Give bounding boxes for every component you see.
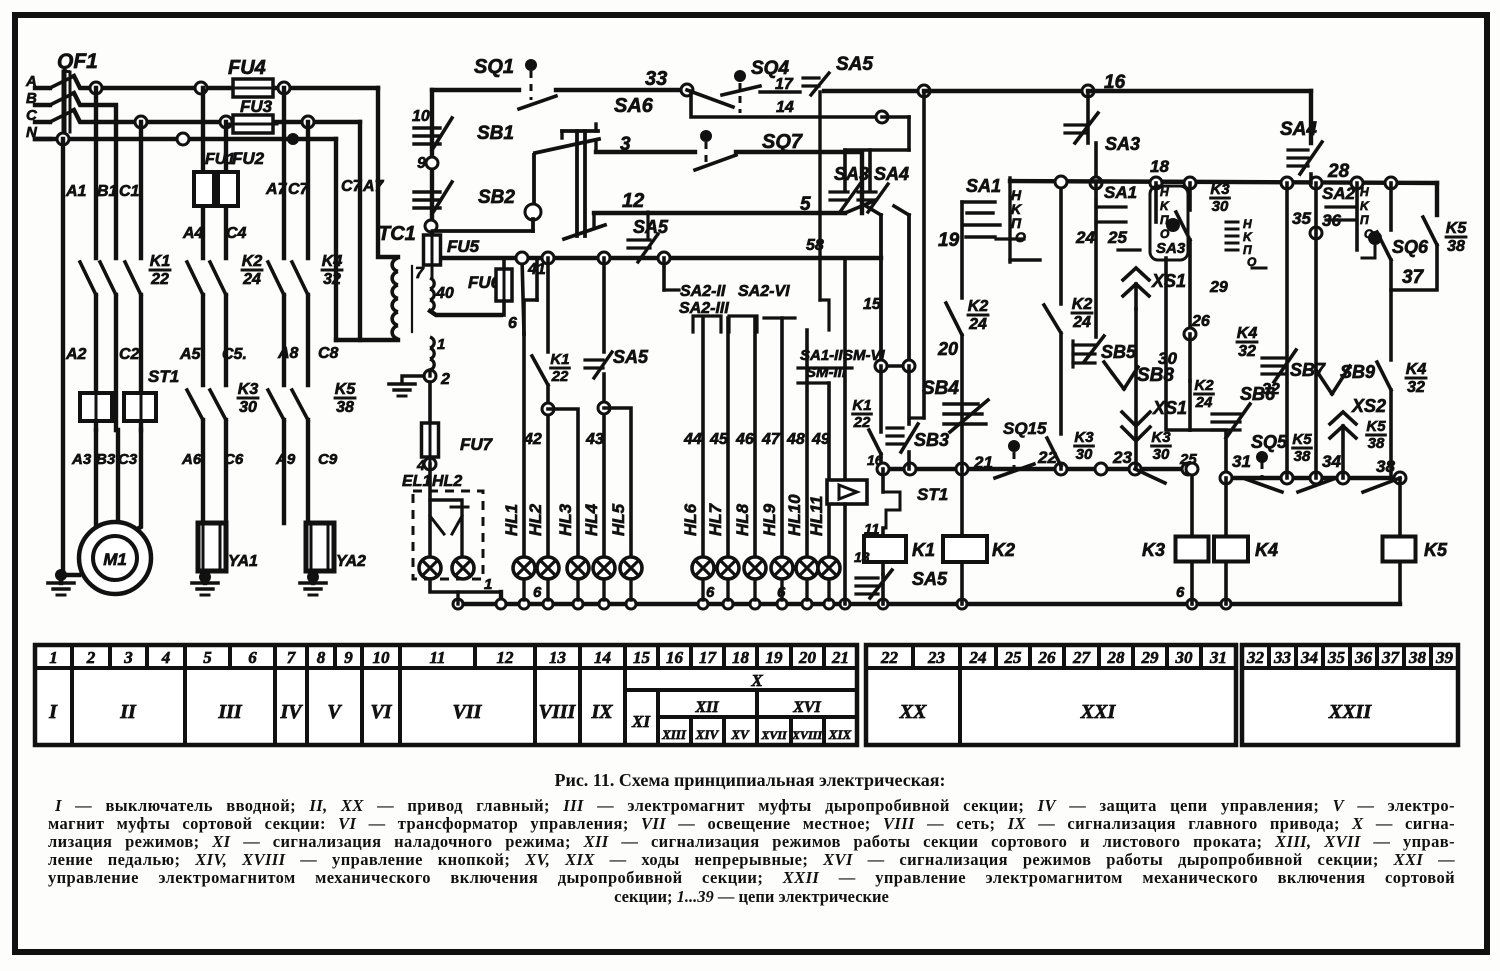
svg-text:32: 32: [1407, 379, 1425, 396]
svg-text:A1: A1: [65, 183, 87, 200]
svg-text:SB3: SB3: [914, 430, 949, 450]
svg-text:45: 45: [709, 431, 729, 448]
svg-text:32: 32: [323, 271, 341, 288]
svg-text:VII: VII: [453, 701, 483, 723]
svg-text:VI: VI: [370, 701, 392, 723]
node 2: [424, 370, 436, 382]
svg-text:43: 43: [585, 431, 604, 448]
svg-text:IV: IV: [279, 701, 303, 723]
svg-text:22: 22: [150, 271, 169, 288]
contactor K4 contacts: [268, 262, 284, 295]
svg-text:8: 8: [317, 648, 326, 667]
svg-text:K1: K1: [150, 253, 171, 270]
spring symbol: [1226, 221, 1238, 224]
svg-text:6: 6: [706, 584, 715, 601]
svg-text:SQ6: SQ6: [1392, 237, 1429, 257]
svg-text:5: 5: [800, 194, 811, 215]
svg-text:K4: K4: [1406, 361, 1427, 378]
svg-text:24: 24: [242, 271, 261, 288]
wire from node SA5 down: [907, 117, 911, 150]
svg-text:SQ5: SQ5: [1251, 432, 1288, 452]
svg-text:12: 12: [622, 190, 644, 212]
wire SB column: [430, 90, 434, 238]
svg-text:П: П: [1360, 213, 1369, 227]
svg-text:A5: A5: [179, 346, 202, 363]
SQ5 row 478: [1226, 476, 1400, 480]
svg-text:SA1: SA1: [1104, 183, 1137, 202]
svg-text:C6: C6: [224, 451, 244, 468]
svg-text:21: 21: [831, 648, 849, 667]
svg-text:XVIII: XVIII: [791, 728, 823, 742]
svg-text:SQ7: SQ7: [762, 131, 803, 153]
svg-text:K2: K2: [242, 253, 263, 270]
contact chain 1190: [1188, 183, 1192, 210]
svg-text:ST1: ST1: [917, 485, 948, 504]
contactor K3 contacts: [187, 390, 203, 420]
svg-text:25: 25: [1004, 648, 1023, 667]
svg-text:K5: K5: [1366, 418, 1386, 435]
svg-text:16: 16: [666, 648, 684, 667]
svg-text:32: 32: [1262, 381, 1280, 398]
branch to HL3: [548, 409, 578, 557]
svg-text:SA6: SA6: [614, 95, 654, 117]
svg-text:H: H: [1243, 217, 1252, 231]
svg-text:O: O: [1015, 229, 1026, 245]
svg-text:12: 12: [497, 648, 515, 667]
chain 24 contacts: [1059, 182, 1063, 304]
svg-text:A2: A2: [65, 346, 87, 363]
svg-text:31: 31: [1232, 452, 1251, 471]
svg-text:6: 6: [508, 315, 517, 332]
coil drops: [1190, 562, 1194, 604]
svg-text:SA3: SA3: [834, 164, 869, 184]
svg-text:K5: K5: [1292, 431, 1312, 448]
svg-text:FU2: FU2: [232, 149, 265, 168]
svg-text:K: K: [1160, 199, 1170, 213]
electromagnet YA1: [198, 523, 226, 571]
svg-text:HL9: HL9: [760, 503, 779, 536]
svg-text:37: 37: [1402, 267, 1425, 288]
node C1: [425, 220, 437, 232]
svg-text:HL1: HL1: [502, 504, 521, 536]
motor M1: [94, 430, 98, 527]
svg-text:SA2-VI: SA2-VI: [738, 283, 790, 300]
svg-text:SA1: SA1: [966, 176, 1001, 196]
ground under YA1: [199, 571, 211, 583]
svg-text:XII: XII: [694, 699, 719, 716]
svg-text:38: 38: [336, 399, 354, 416]
node on C bus: [135, 116, 147, 128]
svg-text:38: 38: [1408, 648, 1427, 667]
contactor K2 main contacts: [187, 262, 203, 295]
svg-text:II: II: [119, 701, 137, 723]
wire 6 from secondary: [430, 311, 501, 315]
svg-text:C2: C2: [119, 346, 140, 363]
contact inside EL1 box: [430, 516, 444, 534]
svg-text:1: 1: [49, 648, 58, 667]
svg-text:XIII: XIII: [661, 727, 687, 742]
svg-text:K2: K2: [1072, 296, 1093, 313]
svg-text:14: 14: [594, 648, 611, 667]
svg-text:19: 19: [938, 230, 960, 251]
node 43: [598, 402, 610, 414]
svg-text:30: 30: [1153, 446, 1170, 463]
svg-text:HL6: HL6: [681, 503, 700, 536]
svg-text:6: 6: [1176, 584, 1185, 601]
svg-text:26: 26: [1038, 648, 1057, 667]
svg-text:FU3: FU3: [240, 97, 273, 116]
svg-text:FU7: FU7: [460, 435, 494, 454]
svg-text:FU1: FU1: [205, 151, 235, 168]
svg-text:4: 4: [161, 648, 171, 667]
svg-text:32: 32: [1238, 343, 1256, 360]
svg-text:K4: K4: [1255, 540, 1278, 560]
svg-text:24: 24: [1075, 228, 1095, 247]
svg-text:SA5: SA5: [836, 54, 873, 75]
svg-text:37: 37: [1381, 648, 1401, 667]
electromagnet YA2: [306, 523, 334, 571]
svg-text:SB5: SB5: [1101, 342, 1137, 362]
mini bus 366: [881, 364, 909, 368]
fuse FU7: [428, 382, 432, 423]
svg-text:K2: K2: [968, 298, 989, 315]
svg-text:ST1: ST1: [148, 367, 179, 386]
relay box with triangle: [827, 480, 867, 504]
node on A bus: [90, 82, 102, 94]
svg-text:HL8: HL8: [733, 503, 752, 536]
svg-text:44: 44: [683, 431, 702, 448]
svg-text:FU4: FU4: [228, 57, 266, 79]
svg-text:3: 3: [123, 648, 133, 667]
TC1 primary winding: [392, 258, 398, 272]
svg-text:30: 30: [239, 399, 257, 416]
svg-text:33: 33: [1273, 648, 1292, 667]
svg-text:22: 22: [551, 368, 569, 385]
svg-text:A3: A3: [71, 451, 92, 468]
svg-text:K1: K1: [852, 397, 871, 414]
svg-text:K3: K3: [1142, 540, 1165, 560]
relay coil K1: [864, 536, 906, 562]
svg-text:K5: K5: [335, 381, 357, 398]
table X group: [623, 668, 627, 745]
svg-text:X: X: [750, 671, 763, 690]
svg-text:26: 26: [1191, 313, 1210, 330]
svg-text:17: 17: [699, 648, 718, 667]
svg-text:25: 25: [1107, 228, 1127, 247]
svg-text:34: 34: [1322, 452, 1341, 471]
svg-text:35: 35: [1292, 209, 1311, 228]
node 42: [542, 403, 554, 415]
svg-text:A7: A7: [362, 178, 385, 195]
wire A1 column: [61, 139, 65, 575]
svg-text:C4: C4: [226, 225, 247, 242]
ground at motor: [55, 569, 67, 581]
wire C1 column: [114, 122, 118, 258]
ground wire from node 2: [402, 376, 424, 382]
svg-text:47: 47: [761, 431, 781, 448]
ground under YA2: [307, 571, 319, 583]
svg-text:33: 33: [645, 68, 667, 90]
contact on wire 12: [845, 200, 876, 213]
svg-text:YA1: YA1: [228, 553, 258, 570]
svg-text:6: 6: [248, 648, 257, 667]
svg-text:39: 39: [1435, 648, 1454, 667]
svg-text:SA5: SA5: [912, 569, 948, 589]
svg-text:11: 11: [429, 648, 445, 667]
svg-text:23: 23: [1112, 448, 1132, 467]
svg-text:24: 24: [1072, 314, 1091, 331]
svg-text:2: 2: [440, 371, 450, 388]
svg-text:2: 2: [86, 648, 96, 667]
svg-text:EL1: EL1: [402, 473, 431, 490]
svg-text:XVI: XVI: [792, 699, 821, 716]
selector block 18: [1154, 183, 1158, 222]
svg-text:XS1: XS1: [1152, 398, 1187, 418]
svg-text:XIV: XIV: [695, 727, 720, 742]
svg-text:27: 27: [1072, 648, 1092, 667]
node SA5: [918, 85, 930, 97]
svg-text:K4: K4: [322, 253, 343, 270]
svg-text:19: 19: [766, 648, 784, 667]
svg-text:M1: M1: [103, 550, 127, 569]
svg-text:K2: K2: [1194, 377, 1214, 394]
svg-text:SA4: SA4: [874, 164, 909, 184]
svg-text:15: 15: [633, 648, 651, 667]
svg-text:HL7: HL7: [706, 502, 725, 536]
svg-text:31: 31: [1209, 648, 1227, 667]
svg-text:46: 46: [735, 431, 754, 448]
svg-text:XIX: XIX: [828, 727, 852, 742]
bus 183: [1010, 181, 1437, 183]
svg-text:SB4: SB4: [922, 378, 959, 399]
svg-text:1: 1: [437, 336, 445, 353]
svg-text:K4: K4: [1237, 325, 1258, 342]
svg-text:K1: K1: [912, 540, 935, 560]
svg-text:18: 18: [1150, 157, 1169, 176]
svg-text:SA3: SA3: [1105, 134, 1140, 154]
wire control top: [432, 88, 519, 92]
lamp HL2 small: [452, 557, 474, 579]
svg-text:20: 20: [798, 648, 817, 667]
svg-text:18: 18: [732, 648, 750, 667]
svg-text:XS1: XS1: [1151, 271, 1186, 291]
bus 150: [845, 148, 909, 152]
svg-text:SA5: SA5: [613, 347, 649, 367]
branch to HL5: [604, 408, 631, 557]
svg-text:34: 34: [1300, 648, 1318, 667]
svg-text:A9: A9: [275, 451, 296, 468]
svg-text:30: 30: [1076, 446, 1093, 463]
svg-text:36: 36: [1354, 648, 1373, 667]
svg-text:13: 13: [549, 648, 567, 667]
svg-text:H: H: [1360, 185, 1369, 199]
svg-text:HL5: HL5: [609, 503, 628, 536]
svg-text:K2: K2: [992, 540, 1015, 560]
svg-text:C3: C3: [118, 451, 138, 468]
svg-text:15: 15: [863, 296, 882, 313]
svg-text:III: III: [217, 701, 243, 723]
svg-text:K: K: [1243, 230, 1253, 244]
svg-text:SA3: SA3: [1156, 240, 1186, 257]
svg-text:9: 9: [344, 648, 353, 667]
wire 16 bus: [924, 89, 1088, 93]
svg-text:C5.: C5.: [222, 346, 247, 363]
svg-text:24: 24: [1195, 394, 1213, 411]
svg-text:XS2: XS2: [1351, 396, 1386, 416]
svg-text:40: 40: [435, 285, 454, 302]
svg-text:K3: K3: [238, 381, 259, 398]
lamp EL1: [419, 557, 441, 579]
svg-text:C9: C9: [318, 451, 338, 468]
svg-text:30: 30: [1212, 198, 1229, 215]
svg-text:35: 35: [1327, 648, 1346, 667]
svg-text:SA2-II: SA2-II: [680, 283, 726, 300]
svg-text:HL3: HL3: [556, 503, 575, 536]
svg-text:30: 30: [1175, 648, 1194, 667]
svg-text:49: 49: [811, 431, 830, 448]
svg-text:FU5: FU5: [447, 237, 480, 256]
TC1 secondary winding upper: [430, 278, 434, 289]
svg-text:24: 24: [969, 648, 987, 667]
svg-text:28: 28: [1327, 161, 1350, 182]
svg-text:XVII: XVII: [760, 728, 788, 742]
row 469: [881, 467, 1188, 471]
svg-text:13: 13: [854, 549, 870, 565]
svg-text:10: 10: [373, 648, 391, 667]
svg-text:K3: K3: [1210, 181, 1230, 198]
svg-text:K5: K5: [1446, 220, 1468, 237]
svg-text:32: 32: [1246, 648, 1265, 667]
svg-text:C8: C8: [318, 345, 339, 362]
svg-text:38: 38: [1368, 435, 1385, 452]
svg-text:VIII: VIII: [539, 701, 577, 723]
svg-text:SA2: SA2: [1322, 184, 1356, 203]
wire SB6 to SQ5 row: [1190, 430, 1226, 478]
svg-text:A4: A4: [182, 225, 204, 242]
selector SA2 contacts: [662, 258, 666, 290]
svg-text:HL10: HL10: [785, 494, 804, 536]
fuse FU5: [424, 235, 441, 265]
svg-text:XX: XX: [899, 701, 927, 723]
selector bracket: [1008, 178, 1011, 262]
svg-text:SQ15: SQ15: [1003, 419, 1047, 438]
svg-text:XXI: XXI: [1080, 701, 1117, 723]
svg-text:20: 20: [937, 339, 958, 359]
TC1 core: [411, 266, 413, 332]
svg-text:XV: XV: [730, 727, 750, 742]
wire 1 to bottom bus: [430, 579, 501, 592]
svg-text:XI: XI: [631, 712, 651, 731]
svg-text:5: 5: [203, 648, 212, 667]
svg-text:38: 38: [1294, 448, 1311, 465]
svg-text:SQ1: SQ1: [474, 56, 514, 78]
wire 845 from control bus: [843, 258, 847, 480]
svg-text:TC1: TC1: [378, 223, 416, 245]
selector SA1-II bars: [798, 366, 852, 369]
svg-text:HL2: HL2: [432, 473, 462, 490]
svg-text:SB2: SB2: [478, 187, 515, 208]
svg-text:1: 1: [484, 576, 492, 593]
svg-text:YA2: YA2: [336, 553, 366, 570]
svg-text:SB1: SB1: [477, 123, 514, 144]
svg-text:HL4: HL4: [582, 503, 601, 536]
svg-text:K1: K1: [550, 351, 569, 368]
bottom bus wire 6: [499, 592, 503, 604]
lamp column HL1: [522, 334, 526, 557]
svg-text:SB8: SB8: [1137, 365, 1174, 386]
svg-text:23: 23: [927, 648, 946, 667]
pushbutton SB2: [414, 190, 440, 193]
svg-text:HL11: HL11: [807, 496, 826, 536]
svg-text:K5: K5: [1424, 540, 1448, 560]
relay coil K2: [960, 469, 964, 536]
svg-text:7: 7: [415, 265, 425, 282]
svg-text:B3: B3: [96, 451, 116, 468]
TC1 secondary winding lower: [430, 337, 434, 348]
contactor K5 contacts: [268, 390, 284, 420]
svg-text:21: 21: [973, 453, 993, 472]
circuit number table: [35, 645, 857, 745]
svg-text:28: 28: [1107, 648, 1126, 667]
wire B1 column: [94, 88, 98, 258]
svg-text:10: 10: [412, 108, 430, 125]
svg-text:SA5: SA5: [633, 217, 669, 237]
svg-text:K: K: [1360, 199, 1370, 213]
svg-text:38: 38: [1447, 238, 1465, 255]
svg-text:HL2: HL2: [526, 503, 545, 536]
svg-text:14: 14: [776, 99, 794, 116]
svg-text:A6: A6: [181, 451, 202, 468]
svg-text:V: V: [327, 701, 342, 723]
svg-text:22: 22: [880, 648, 899, 667]
contact K1/22 aux: [546, 258, 550, 352]
selector bars over lamp columns: [693, 316, 721, 332]
wire 30: [1166, 258, 1190, 430]
svg-text:XXII: XXII: [1328, 701, 1372, 723]
svg-text:K3: K3: [1074, 429, 1094, 446]
svg-text:42: 42: [523, 431, 542, 448]
wire 41 to lamp HL1: [522, 258, 524, 334]
contactor K1 main contacts: [80, 262, 96, 295]
svg-text:C1: C1: [119, 183, 140, 200]
svg-text:24: 24: [968, 316, 987, 333]
lamp drops to bus: [522, 579, 525, 600]
EL1 drop to bus: [456, 592, 459, 604]
contact to wire 12: [564, 225, 605, 239]
contact K2/24 left: [960, 202, 964, 298]
svg-text:48: 48: [786, 431, 805, 448]
svg-text:29: 29: [1141, 648, 1160, 667]
contact to wire 3: [535, 139, 599, 153]
node on N bus: [57, 133, 69, 145]
center changeover switch: [562, 129, 598, 133]
svg-text:A8: A8: [277, 345, 299, 362]
svg-text:29: 29: [1209, 279, 1228, 296]
svg-text:6: 6: [533, 584, 542, 601]
svg-text:IX: IX: [590, 701, 613, 723]
svg-text:I: I: [48, 701, 58, 723]
relay coils K3 K4 K5: [1190, 469, 1194, 536]
control bus 258: [443, 256, 881, 260]
node 33: [681, 84, 693, 96]
